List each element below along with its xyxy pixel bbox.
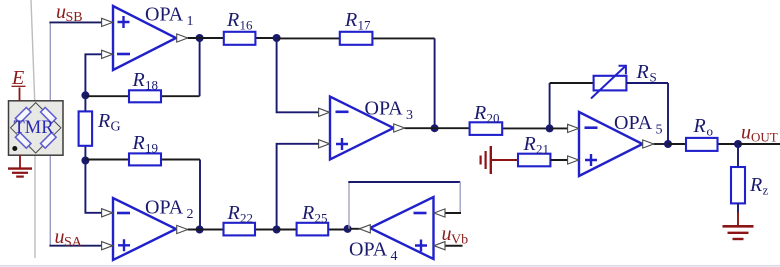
svg-text:OPA: OPA [614, 112, 653, 134]
svg-text:R: R [227, 202, 240, 224]
svg-text:22: 22 [240, 211, 253, 226]
resistor R18 [85, 69, 199, 102]
svg-text:SA: SA [64, 235, 83, 250]
node R20 junction [546, 124, 554, 132]
svg-text:17: 17 [358, 18, 372, 33]
svg-text:4: 4 [391, 249, 398, 264]
svg-text:G: G [111, 120, 121, 135]
svg-text:R: R [749, 174, 762, 196]
svg-text:OPA: OPA [145, 4, 184, 26]
wire OPA4 output [348, 228, 360, 230]
wire uSB vertical from bridge [49, 23, 51, 101]
svg-text:R: R [132, 132, 145, 154]
wire OPA1 inverting input [85, 54, 103, 95]
svg-text:Vb: Vb [451, 233, 468, 248]
node R25 junction [344, 225, 352, 233]
wire uOUT output [738, 143, 780, 145]
node OPA5 output junction [664, 140, 672, 148]
svg-text:25: 25 [315, 211, 328, 226]
svg-text:OPA: OPA [365, 98, 404, 120]
wire OPA4 feedback left vertical [348, 182, 350, 229]
svg-text:R: R [636, 61, 649, 83]
node OPA1 output junction [196, 34, 204, 42]
wire RS left lead [550, 82, 594, 84]
node Ro junction [734, 140, 742, 148]
svg-text:1: 1 [187, 14, 194, 29]
wire OPA5 output [654, 143, 668, 145]
node R22 junction [273, 226, 281, 234]
resistor RG [79, 95, 121, 160]
op-amp OPA3 [319, 97, 413, 160]
wire RS feedback left vertical [549, 83, 551, 128]
wire bridge bottom dangling (gray) [34, 155, 36, 258]
wire R17 to OPA3 output [434, 38, 436, 128]
wire bridge excitation top (gray) [31, 0, 35, 101]
wire OPA2 inverting input [85, 161, 103, 213]
node RG top junction [81, 91, 89, 99]
wire R18 to OPA1 output [199, 38, 201, 96]
svg-text:u: u [741, 122, 751, 144]
node R16 junction [273, 34, 281, 42]
sensor bridge TMR [9, 101, 64, 155]
wire uVb input [444, 245, 463, 247]
svg-text:OUT: OUT [751, 130, 778, 145]
resistor R17 [277, 9, 435, 45]
ground (output) [723, 226, 754, 239]
wire uSB to OPA1 [49, 21, 103, 23]
wire uSA vertical from bridge [49, 155, 51, 245]
svg-text:u: u [442, 223, 452, 245]
resistor R16 [188, 9, 277, 45]
wire OPA3 inverting input [277, 38, 320, 112]
ground (R21 side ground) [481, 146, 491, 174]
svg-text:u: u [56, 1, 66, 23]
svg-text:2: 2 [187, 207, 194, 222]
svg-text:16: 16 [240, 18, 254, 33]
svg-text:OPA: OPA [349, 239, 388, 261]
svg-text:3: 3 [406, 108, 413, 123]
resistor R19 [85, 132, 200, 165]
svg-text:R: R [473, 102, 486, 124]
svg-text:18: 18 [145, 78, 158, 93]
svg-text:u: u [55, 226, 65, 248]
op-amp OPA5 [568, 112, 663, 176]
wire RS right lead [626, 82, 668, 84]
node OPA2 output junction [196, 226, 204, 234]
node RG bottom junction [81, 157, 89, 165]
svg-text:19: 19 [145, 141, 158, 156]
wire OPA4 feedback right vertical [459, 182, 461, 213]
resistor Rz [731, 144, 769, 226]
wire E to bridge [19, 88, 21, 102]
wire OPA4 feedback top [348, 181, 460, 183]
wire OPA3 non-inverting input [277, 144, 320, 230]
wire ground to R21 [491, 159, 518, 161]
resistor Ro [668, 115, 738, 151]
op-amp OPA1 [102, 4, 194, 71]
svg-text:OPA: OPA [145, 197, 184, 219]
resistor RS (adjustable) [591, 61, 657, 99]
svg-text:z: z [763, 183, 769, 198]
op-amp OPA2 [102, 197, 194, 261]
svg-text:R: R [132, 69, 145, 91]
svg-text:o: o [707, 124, 714, 139]
wire OPA5 inverting input [550, 127, 569, 129]
svg-text:21: 21 [536, 142, 549, 157]
wire RS to OPA5 output [667, 83, 669, 144]
svg-text:TMR: TMR [14, 118, 55, 138]
svg-text:R: R [301, 202, 314, 224]
ground (bridge) [8, 155, 32, 177]
wire R19 to OPA2 output [199, 160, 201, 230]
wire bottom crop line [0, 265, 780, 267]
resistor R21 [518, 133, 569, 166]
resistor R20 [405, 102, 550, 135]
svg-text:R: R [97, 110, 110, 132]
node OPA3 output junction [431, 124, 439, 132]
wire OPA4 inverting input [444, 212, 461, 214]
svg-text:R: R [344, 9, 357, 31]
svg-text:R: R [523, 133, 536, 155]
svg-text:R: R [693, 115, 706, 137]
wire uSA to OPA2 [49, 245, 103, 247]
svg-text:5: 5 [656, 123, 663, 138]
resistor R25 [277, 202, 348, 235]
op-amp OPA4 [349, 197, 445, 264]
resistor R22 [188, 202, 277, 235]
svg-text:SB: SB [66, 10, 83, 25]
svg-text:20: 20 [487, 111, 500, 126]
svg-text:R: R [226, 9, 239, 31]
